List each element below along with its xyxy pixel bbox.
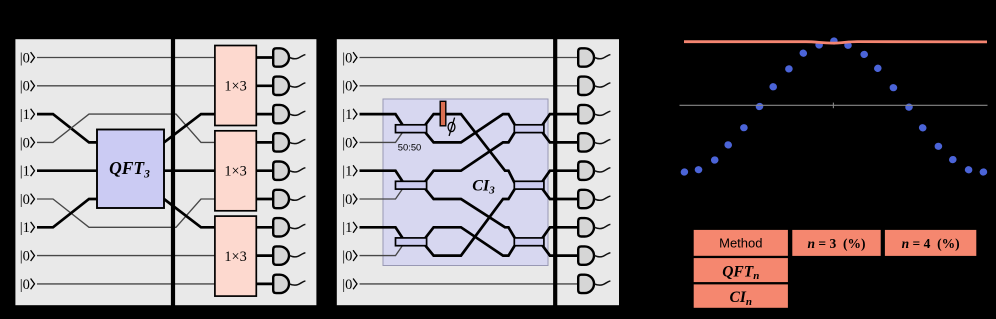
readout wire B4 <box>594 139 610 143</box>
data dot 12 <box>843 41 852 50</box>
wire BS3 upper arm, crossing down to right BS3 lower input <box>424 227 517 255</box>
svg-text:50:50: 50:50 <box>398 141 421 152</box>
detector B1 <box>578 48 594 66</box>
1x3 splitter box S2 <box>215 131 256 211</box>
table cell Method <box>693 229 789 257</box>
readout wire B3 <box>594 111 610 115</box>
svg-text:1×3: 1×3 <box>224 164 246 180</box>
wire splitter to detector A6 <box>256 198 274 201</box>
svg-text:QFT3: QFT3 <box>109 158 150 181</box>
readout wire B2 <box>594 83 610 87</box>
readout wire A8 <box>289 253 305 257</box>
data dot 15 <box>889 84 898 92</box>
data dot 8 <box>784 65 793 74</box>
readout wire A4 <box>289 139 305 143</box>
wire splitter to detector A9 <box>256 283 274 286</box>
data dot 1 <box>679 167 689 177</box>
wire QFT output 1 crossing up to splitter 1 (a) <box>164 114 216 142</box>
wire rail 9 panel b <box>360 283 579 285</box>
wire BS1 lower arm, crossing up to right BS1 upper input <box>424 114 517 142</box>
readout wire B9 <box>594 281 610 285</box>
svg-text:|0: |0 <box>20 249 30 265</box>
data dot 20 <box>964 165 973 174</box>
phase shifter bar <box>440 101 446 126</box>
barrier line panel b <box>553 38 557 306</box>
wire right BS3 output to detector B8 <box>541 243 578 255</box>
beam splitter BS2L <box>396 181 427 189</box>
svg-text:n = 4 (%): n = 4 (%) <box>902 236 960 251</box>
panel (b) background box <box>336 38 620 306</box>
detector B8 <box>578 246 594 264</box>
svg-text:Method: Method <box>719 236 762 251</box>
wire |1> rail 7 crossing up into QFT input (a) <box>37 199 98 227</box>
table cell n=3 <box>791 229 882 257</box>
detector A8 <box>273 246 289 264</box>
table cell CI_n <box>693 283 789 309</box>
detector B7 <box>578 218 594 236</box>
svg-text:1×3: 1×3 <box>224 78 246 94</box>
beam splitter BS2R <box>514 181 544 189</box>
1x3 splitter box S1 <box>215 46 256 126</box>
detector B2 <box>578 77 594 95</box>
beam splitter BS3L <box>396 238 427 246</box>
phase label phi <box>448 122 455 131</box>
wire QFT output 3 crossing down to splitter 3 (a) <box>164 199 216 227</box>
wire splitter to detector A8 <box>256 254 274 257</box>
data dot 14 <box>873 63 883 73</box>
readout wire B5 <box>594 168 610 172</box>
detector A2 <box>273 77 289 95</box>
data dot 5 <box>740 124 748 131</box>
wire |1> rail 3 crossing down into QFT input (a) <box>37 114 98 142</box>
wire splitter to detector A7 <box>256 226 274 229</box>
wire |1> rail 7 into beam splitter (b) <box>360 227 405 240</box>
readout wire A5 <box>289 168 305 172</box>
beam splitter BS1L <box>396 125 427 133</box>
wire splitter to detector A3 <box>256 113 274 116</box>
1x3 splitter box S3 <box>215 216 256 296</box>
data dot 9 <box>798 48 808 58</box>
wire rail 8 panel a <box>37 255 216 257</box>
CI_3 interferometer region <box>383 99 548 266</box>
data dot 21 <box>979 168 988 176</box>
wire right BS3 output to detector B7 <box>541 227 578 240</box>
wire |1> rail 5 into QFT (a) <box>37 169 98 172</box>
data dot 18 <box>935 143 943 150</box>
plot axis line (gray) <box>680 104 988 106</box>
QFT_3 gate box <box>97 130 164 209</box>
wire splitter to detector A2 <box>256 84 274 87</box>
plot reference line (red) <box>684 42 987 44</box>
wire right BS2 output to detector B5 <box>541 171 578 184</box>
svg-text:|1: |1 <box>20 220 30 236</box>
wire right BS1 output to detector B3 <box>541 114 578 127</box>
data dot 7 <box>769 82 778 91</box>
wire splitter to detector A5 <box>256 169 274 172</box>
readout wire B1 <box>594 55 610 59</box>
beam splitter BS3R <box>514 238 544 246</box>
wire BS3 lower arm, up to right BS2 lower input <box>424 186 517 255</box>
data dot 19 <box>948 155 958 165</box>
data dot 17 <box>918 123 928 133</box>
svg-text:n = 3 (%): n = 3 (%) <box>808 236 866 251</box>
wire splitter to detector A1 <box>256 56 274 59</box>
readout wire A3 <box>289 111 305 115</box>
detector B6 <box>578 190 594 208</box>
wire |1> rail 3 into beam splitter (b) <box>360 114 405 127</box>
readout wire A7 <box>289 224 305 228</box>
svg-text:|0: |0 <box>20 192 30 208</box>
svg-text:|0: |0 <box>342 50 352 66</box>
barrier line panel a <box>171 38 175 306</box>
svg-text:|1: |1 <box>342 164 352 180</box>
wire |0> rail 6 into beam splitter (b) <box>360 187 405 199</box>
svg-text:|0: |0 <box>342 249 352 265</box>
svg-text:|0: |0 <box>342 192 352 208</box>
svg-text:|0: |0 <box>342 79 352 95</box>
wire rail 9 panel a <box>37 283 216 285</box>
svg-text:|0: |0 <box>20 50 30 66</box>
data dot 2 <box>694 166 702 174</box>
svg-text:1×3: 1×3 <box>224 249 246 265</box>
detector A4 <box>273 133 289 151</box>
wire rail 1 panel b <box>360 57 579 59</box>
detector B5 <box>578 162 594 180</box>
plot axis center tick <box>832 103 834 109</box>
table cell QFT_n <box>693 257 789 283</box>
wire rail 2 panel b <box>360 85 579 87</box>
detector B4 <box>578 133 594 151</box>
data dot 6 <box>755 102 765 112</box>
svg-text:|0: |0 <box>20 277 30 293</box>
wire splitter to detector A4 <box>256 141 274 144</box>
detector B3 <box>578 105 594 123</box>
readout wire A2 <box>289 83 305 87</box>
wire |1> rail 5 into beam splitter (b) <box>360 171 405 184</box>
wire |0> rail 4 into beam splitter (b) <box>360 130 405 142</box>
wire rail 1 panel a <box>37 57 216 59</box>
wire BS2 lower arm, down to right BS3 upper input <box>424 187 517 241</box>
wire |0> rail 6 crossing down, bypass below QFT (a) <box>37 199 216 227</box>
readout wire B7 <box>594 224 610 228</box>
svg-text:|1: |1 <box>20 107 30 123</box>
wire BS2 upper arm, up to right BS1 lower input <box>424 130 517 184</box>
readout wire A6 <box>289 196 305 200</box>
data dot 4 <box>723 140 733 149</box>
wire right BS1 output to detector B4 <box>541 130 578 142</box>
readout wire B6 <box>594 196 610 200</box>
wire |0> rail 4 crossing up, bypass above QFT (a) <box>37 114 216 142</box>
detector A5 <box>273 162 289 180</box>
detector A3 <box>273 105 289 123</box>
wire rail 2 panel a <box>37 85 216 87</box>
svg-text:|0: |0 <box>342 135 352 151</box>
readout wire B8 <box>594 253 610 257</box>
data dot 11 <box>829 36 839 45</box>
svg-text:|0: |0 <box>20 135 30 151</box>
data dot 16 <box>904 103 913 112</box>
data dot 10 <box>815 41 823 49</box>
panel (a) background box <box>14 38 317 306</box>
detector A6 <box>273 190 289 208</box>
detector A1 <box>273 48 289 66</box>
svg-text:|1: |1 <box>342 220 352 236</box>
wire BS1 upper arm with phase, to right BS2 upper input <box>424 114 517 186</box>
readout wire A1 <box>289 55 305 59</box>
svg-text:|1: |1 <box>342 107 352 123</box>
svg-text:|0: |0 <box>20 79 30 95</box>
data dot 3 <box>710 155 719 164</box>
detector A7 <box>273 218 289 236</box>
detector A9 <box>273 275 289 293</box>
data dot 13 <box>860 50 868 58</box>
svg-text:|0: |0 <box>342 277 352 293</box>
beam splitter BS1R <box>514 125 544 133</box>
wire QFT output 2 straight to splitter 2 (a) <box>164 169 216 172</box>
wire right BS2 output to detector B6 <box>541 187 578 199</box>
detector B9 <box>578 275 594 293</box>
readout wire A9 <box>289 281 305 285</box>
wire |0> rail 8 into beam splitter (b) <box>360 243 405 255</box>
table cell n=4 <box>884 229 978 257</box>
svg-text:|1: |1 <box>20 164 30 180</box>
